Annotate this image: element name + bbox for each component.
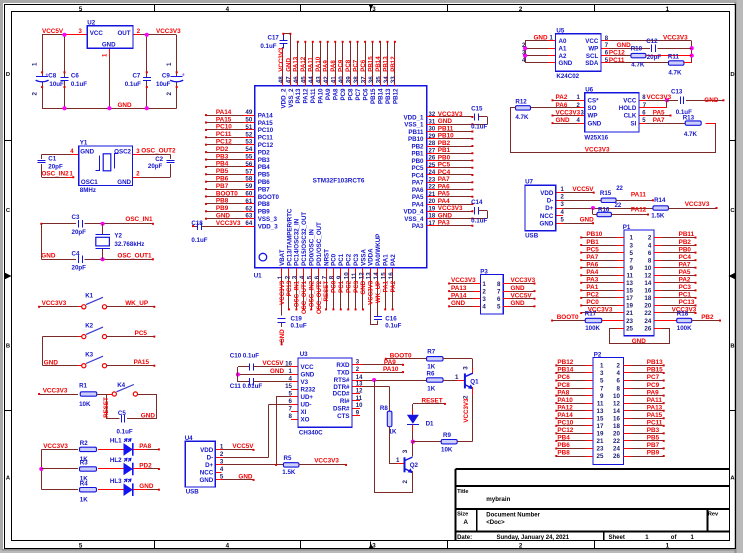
svg-text:VCC3V3: VCC3V3	[43, 443, 68, 450]
svg-text:Q1: Q1	[470, 379, 479, 386]
svg-text:Q2: Q2	[410, 462, 419, 469]
svg-text:22: 22	[429, 185, 436, 191]
svg-text:VCC5V: VCC5V	[42, 28, 64, 35]
svg-text:VCC3V3: VCC3V3	[314, 457, 339, 464]
svg-text:GND: GND	[44, 360, 59, 367]
svg-text:PA9: PA9	[384, 359, 396, 366]
svg-text:PA6: PA6	[586, 261, 598, 268]
svg-text:PB14: PB14	[375, 56, 382, 72]
svg-text:PA14: PA14	[258, 112, 274, 119]
svg-text:4.7K: 4.7K	[515, 114, 529, 121]
svg-text:0.1uF: 0.1uF	[125, 81, 141, 88]
svg-text:1: 1	[32, 62, 39, 66]
svg-text:2: 2	[32, 92, 39, 96]
svg-text:9: 9	[336, 275, 343, 279]
svg-text:PB10: PB10	[586, 231, 602, 238]
svg-text:PA7: PA7	[679, 261, 691, 268]
svg-text:20: 20	[613, 431, 620, 438]
svg-text:1K: 1K	[80, 496, 88, 503]
svg-text:PD2: PD2	[139, 462, 152, 469]
svg-text:Title: Title	[457, 489, 468, 495]
svg-text:K4: K4	[117, 382, 125, 389]
svg-text:21: 21	[597, 438, 604, 445]
svg-text:A1: A1	[559, 45, 567, 52]
svg-text:PB15: PB15	[367, 56, 374, 72]
svg-text:5: 5	[79, 543, 83, 550]
svg-text:C17: C17	[268, 34, 280, 41]
svg-text:3: 3	[462, 366, 469, 370]
svg-text:GND: GND	[360, 280, 367, 294]
svg-text:17: 17	[429, 221, 436, 227]
svg-text:PA15: PA15	[216, 116, 232, 123]
svg-text:PC13: PC13	[679, 299, 695, 306]
svg-text:9: 9	[600, 393, 604, 400]
svg-text:TXD: TXD	[337, 369, 350, 376]
svg-text:PB5: PB5	[647, 435, 660, 442]
svg-text:Y1: Y1	[80, 140, 88, 147]
svg-text:5: 5	[289, 391, 293, 398]
svg-text:0.1uF: 0.1uF	[117, 429, 133, 436]
svg-text:GND: GND	[270, 368, 285, 375]
svg-text:PB4: PB4	[258, 164, 271, 171]
svg-text:6: 6	[648, 250, 652, 257]
svg-text:PA9: PA9	[323, 60, 330, 72]
svg-text:20pF: 20pF	[48, 164, 63, 171]
svg-text:VCC3V3: VCC3V3	[451, 277, 476, 284]
svg-text:VCC3V3: VCC3V3	[685, 201, 710, 208]
svg-text:45: 45	[301, 76, 308, 83]
svg-text:3: 3	[220, 458, 224, 465]
svg-text:41: 41	[330, 76, 337, 83]
svg-text:27: 27	[429, 148, 436, 154]
svg-text:VBAT: VBAT	[279, 249, 286, 266]
svg-text:VDD_2: VDD_2	[280, 88, 287, 109]
svg-text:OSC_OUT2: OSC_OUT2	[141, 148, 176, 155]
svg-text:PA8: PA8	[333, 88, 340, 100]
svg-text:PA5: PA5	[653, 109, 665, 116]
svg-text:V3: V3	[301, 379, 309, 386]
svg-text:HL2: HL2	[110, 457, 122, 464]
svg-text:OSC_OUT1: OSC_OUT1	[117, 252, 152, 259]
svg-text:11: 11	[597, 400, 604, 407]
svg-text:R16: R16	[598, 206, 610, 213]
svg-text:22: 22	[615, 203, 622, 209]
svg-text:HL1: HL1	[110, 438, 122, 445]
svg-text:6: 6	[497, 296, 501, 303]
svg-text:10: 10	[613, 393, 620, 400]
svg-text:PB10: PB10	[408, 136, 424, 143]
svg-text:R12: R12	[515, 98, 527, 105]
svg-text:VCC3V3: VCC3V3	[438, 205, 463, 212]
svg-text:10K: 10K	[79, 401, 91, 408]
svg-text:VDD_1: VDD_1	[404, 114, 425, 121]
svg-text:PB7: PB7	[258, 186, 271, 193]
svg-text:PD0/OSC_IN: PD0/OSC_IN	[309, 229, 316, 266]
svg-text:W25X16: W25X16	[584, 135, 608, 142]
svg-text:13: 13	[356, 381, 363, 387]
svg-text:3: 3	[372, 6, 376, 13]
svg-text:R15: R15	[600, 190, 612, 197]
svg-text:10K: 10K	[441, 446, 453, 453]
svg-text:PA6: PA6	[556, 102, 568, 109]
svg-text:PA11: PA11	[631, 192, 647, 199]
svg-text:14: 14	[644, 280, 651, 287]
svg-text:PA2: PA2	[679, 277, 691, 284]
svg-text:RESET: RESET	[323, 281, 330, 302]
svg-text:WP: WP	[588, 113, 598, 120]
svg-text:PA15: PA15	[134, 359, 150, 366]
svg-text:PB12: PB12	[390, 56, 397, 72]
svg-text:15: 15	[626, 288, 633, 295]
svg-text:25: 25	[597, 453, 604, 460]
svg-text:32.768kHz: 32.768kHz	[114, 241, 144, 248]
svg-text:PB2: PB2	[411, 143, 424, 150]
svg-text:1: 1	[482, 281, 486, 288]
svg-text:26: 26	[429, 156, 436, 162]
svg-text:<Doc>: <Doc>	[486, 520, 505, 526]
svg-text:4.7K: 4.7K	[684, 131, 698, 138]
svg-text:GND: GND	[80, 148, 94, 155]
svg-text:VSS_3: VSS_3	[258, 216, 278, 223]
svg-text:12: 12	[356, 388, 363, 394]
svg-text:36: 36	[368, 76, 375, 83]
svg-text:1: 1	[455, 374, 459, 381]
svg-text:GND: GND	[540, 220, 554, 227]
svg-text:18: 18	[429, 214, 436, 220]
svg-text:PC13: PC13	[286, 280, 293, 296]
svg-text:3: 3	[372, 543, 376, 550]
svg-text:GND: GND	[102, 41, 116, 48]
svg-text:C10 0.1uF: C10 0.1uF	[230, 352, 259, 359]
svg-text:7: 7	[321, 275, 328, 279]
svg-text:54: 54	[245, 146, 252, 153]
svg-text:4: 4	[616, 370, 620, 377]
svg-text:23: 23	[626, 318, 633, 325]
svg-text:43: 43	[316, 76, 323, 83]
svg-text:PA15: PA15	[647, 412, 663, 419]
svg-text:OSC_OUT2: OSC_OUT2	[316, 280, 323, 314]
svg-text:RESET: RESET	[103, 397, 110, 418]
svg-text:GND: GND	[556, 117, 571, 124]
svg-text:PC6: PC6	[557, 374, 570, 381]
svg-text:PB9: PB9	[216, 205, 229, 212]
svg-text:PB11: PB11	[679, 231, 695, 238]
svg-text:Size: Size	[457, 512, 468, 518]
svg-text:VCC3V3: VCC3V3	[279, 280, 286, 305]
svg-text:1: 1	[666, 6, 670, 13]
svg-text:PA5: PA5	[412, 194, 424, 201]
svg-text:PC5: PC5	[135, 330, 148, 337]
svg-text:5: 5	[497, 304, 501, 311]
svg-text:NRST: NRST	[323, 249, 330, 266]
svg-text:29: 29	[429, 134, 436, 140]
svg-text:PB3: PB3	[647, 427, 660, 434]
svg-text:Date:: Date:	[457, 535, 472, 541]
svg-text:5: 5	[79, 6, 83, 13]
svg-text:44: 44	[308, 76, 315, 83]
svg-text:PD2: PD2	[216, 146, 229, 153]
svg-text:A2: A2	[559, 53, 567, 60]
svg-text:PA5: PA5	[438, 191, 450, 198]
svg-text:U1: U1	[254, 273, 262, 280]
svg-text:PA11: PA11	[310, 88, 317, 103]
svg-text:R13: R13	[683, 114, 695, 121]
svg-text:37: 37	[360, 76, 367, 83]
svg-text:VCC3V3: VCC3V3	[463, 398, 470, 423]
svg-text:Y2: Y2	[114, 232, 122, 239]
svg-text:RESET: RESET	[422, 398, 443, 405]
svg-text:A0: A0	[559, 38, 567, 45]
svg-text:59: 59	[245, 183, 252, 190]
svg-text:PB7: PB7	[647, 442, 660, 449]
svg-text:PC12: PC12	[557, 427, 573, 434]
svg-text:C9: C9	[162, 73, 170, 80]
svg-text:8: 8	[497, 281, 501, 288]
svg-text:1: 1	[289, 368, 293, 375]
svg-text:R11: R11	[668, 54, 680, 61]
svg-text:PA12: PA12	[303, 88, 310, 104]
svg-text:15: 15	[381, 272, 388, 279]
svg-text:PA8: PA8	[330, 60, 337, 72]
svg-text:1: 1	[630, 235, 634, 242]
svg-text:21: 21	[626, 310, 633, 317]
svg-text:8: 8	[616, 385, 620, 392]
svg-text:PC10: PC10	[216, 124, 232, 131]
svg-text:26: 26	[644, 325, 651, 332]
svg-text:OSC_IN1: OSC_IN1	[125, 216, 153, 223]
svg-text:PB7: PB7	[216, 183, 229, 190]
svg-text:VDD_4: VDD_4	[404, 209, 425, 216]
svg-text:20pF: 20pF	[72, 265, 87, 272]
svg-text:PB10: PB10	[438, 133, 454, 140]
svg-text:mybrain: mybrain	[486, 496, 510, 503]
svg-text:34: 34	[383, 76, 390, 83]
svg-text:CS*: CS*	[588, 98, 600, 105]
svg-text:3: 3	[482, 296, 486, 303]
svg-text:22: 22	[613, 438, 620, 445]
svg-text:GND: GND	[704, 97, 719, 104]
svg-text:CTS: CTS	[337, 413, 349, 420]
svg-text:PD1/OSC_OUT: PD1/OSC_OUT	[316, 222, 323, 266]
svg-text:PC1: PC1	[338, 280, 345, 293]
svg-text:PA10: PA10	[315, 56, 322, 72]
svg-text:PA4: PA4	[586, 269, 598, 276]
svg-text:BOOT0: BOOT0	[258, 194, 280, 201]
svg-text:14: 14	[373, 272, 380, 279]
svg-text:20: 20	[644, 303, 651, 310]
svg-text:PC4: PC4	[679, 254, 692, 261]
svg-text:13: 13	[597, 408, 604, 415]
svg-text:U3: U3	[300, 351, 308, 358]
svg-text:PC7: PC7	[355, 88, 362, 101]
svg-text:K3: K3	[85, 352, 93, 359]
svg-text:GND: GND	[511, 300, 526, 307]
svg-text:PA7: PA7	[438, 176, 450, 183]
svg-text:7: 7	[600, 385, 604, 392]
svg-text:DCD#: DCD#	[333, 391, 350, 398]
svg-text:PA8: PA8	[557, 389, 569, 396]
svg-text:Rev: Rev	[708, 512, 719, 518]
svg-text:7: 7	[497, 289, 501, 296]
svg-text:11: 11	[351, 272, 358, 279]
svg-text:19: 19	[429, 206, 436, 212]
svg-text:PC8: PC8	[348, 88, 355, 101]
svg-text:PA11: PA11	[647, 397, 663, 404]
svg-text:VCC3V3: VCC3V3	[216, 220, 241, 227]
svg-text:R4: R4	[80, 480, 88, 487]
svg-text:R3: R3	[80, 460, 88, 467]
svg-text:PD2: PD2	[258, 149, 271, 156]
svg-text:PA3: PA3	[586, 277, 598, 284]
svg-text:PA13: PA13	[647, 404, 663, 411]
svg-text:OSC2: OSC2	[114, 148, 131, 155]
svg-text:R8: R8	[380, 405, 388, 412]
svg-text:PB0: PB0	[679, 246, 692, 253]
svg-text:39: 39	[345, 76, 352, 83]
svg-text:VDD: VDD	[540, 190, 554, 197]
svg-text:22: 22	[644, 310, 651, 317]
svg-text:16: 16	[644, 288, 651, 295]
svg-text:63: 63	[245, 213, 252, 220]
svg-text:18: 18	[644, 295, 651, 302]
svg-text:CLK: CLK	[624, 113, 637, 120]
svg-text:PB9: PB9	[258, 209, 271, 216]
svg-text:PC11: PC11	[258, 135, 274, 142]
svg-text:25: 25	[429, 163, 436, 169]
svg-text:PB1: PB1	[411, 151, 424, 158]
svg-text:100K: 100K	[585, 325, 600, 332]
svg-text:VCC3V3: VCC3V3	[43, 387, 68, 394]
svg-text:GND: GND	[451, 300, 466, 307]
svg-text:GND: GND	[279, 329, 286, 343]
svg-text:GND: GND	[118, 102, 133, 109]
svg-text:R6: R6	[427, 370, 435, 377]
svg-text:PC1: PC1	[338, 253, 345, 266]
svg-text:of: of	[671, 535, 678, 541]
svg-text:GND: GND	[41, 252, 56, 259]
svg-text:PC5: PC5	[438, 162, 451, 169]
svg-text:7: 7	[289, 405, 293, 412]
svg-text:PB8: PB8	[557, 450, 570, 457]
svg-text:A: A	[463, 519, 468, 526]
svg-text:16: 16	[285, 361, 292, 368]
svg-text:23: 23	[597, 446, 604, 453]
svg-text:PA1: PA1	[383, 254, 390, 266]
svg-text:1K: 1K	[427, 386, 435, 393]
svg-text:7: 7	[630, 257, 634, 264]
svg-text:1.5K: 1.5K	[282, 469, 296, 476]
svg-text:VSS_4: VSS_4	[404, 216, 424, 223]
svg-text:28: 28	[429, 141, 436, 147]
svg-text:56: 56	[245, 161, 252, 168]
svg-text:49: 49	[245, 109, 252, 116]
svg-text:3: 3	[522, 50, 526, 57]
svg-text:U2: U2	[87, 20, 95, 27]
svg-text:15: 15	[285, 383, 292, 390]
svg-text:PA1: PA1	[586, 284, 598, 291]
svg-text:OSC_IN2: OSC_IN2	[42, 170, 70, 177]
svg-text:C2: C2	[155, 156, 163, 163]
svg-text:R18: R18	[677, 310, 689, 317]
svg-text:VCC3V3: VCC3V3	[556, 109, 581, 116]
svg-text:RXD: RXD	[336, 362, 350, 369]
svg-text:GND: GND	[216, 213, 231, 220]
svg-text:1.5K: 1.5K	[651, 213, 665, 220]
svg-text:R10: R10	[631, 46, 643, 53]
svg-text:PA12: PA12	[631, 206, 647, 213]
svg-text:PC3: PC3	[353, 280, 360, 293]
svg-text:C12: C12	[646, 38, 658, 45]
svg-text:SO: SO	[588, 105, 597, 112]
svg-text:U7: U7	[525, 179, 533, 186]
svg-text:0.1uF: 0.1uF	[71, 81, 87, 88]
svg-text:31: 31	[429, 119, 436, 125]
svg-text:GND: GND	[511, 285, 526, 292]
svg-text:R5: R5	[284, 455, 292, 462]
svg-text:12: 12	[613, 400, 620, 407]
svg-text:GND: GND	[438, 212, 453, 219]
svg-text:OSC_OUT1: OSC_OUT1	[301, 280, 308, 314]
svg-text:PA11: PA11	[308, 57, 315, 72]
svg-text:2: 2	[519, 543, 523, 550]
svg-text:8MHz: 8MHz	[80, 187, 96, 194]
svg-text:PA9: PA9	[325, 88, 332, 100]
svg-text:26: 26	[613, 453, 620, 460]
svg-text:OUT: OUT	[117, 30, 130, 37]
svg-text:VCC: VCC	[90, 30, 104, 37]
svg-text:VCC: VCC	[585, 38, 599, 45]
svg-text:PC15/OSC32_OUT: PC15/OSC32_OUT	[301, 212, 308, 266]
svg-text:61: 61	[245, 198, 252, 205]
svg-text:PC0: PC0	[331, 253, 338, 266]
svg-text:20pF: 20pF	[148, 163, 163, 170]
svg-text:PB1: PB1	[586, 239, 599, 246]
svg-text:42: 42	[323, 76, 330, 83]
svg-text:PB2: PB2	[701, 314, 714, 321]
svg-text:OSC_IN1: OSC_IN1	[294, 280, 301, 307]
svg-text:40: 40	[338, 76, 345, 83]
svg-text:Sheet: Sheet	[609, 535, 625, 541]
svg-text:D-: D-	[207, 455, 214, 462]
svg-text:XO: XO	[301, 416, 310, 423]
svg-text:PA13: PA13	[451, 285, 467, 292]
svg-text:PA3: PA3	[412, 223, 424, 230]
svg-text:10uF: 10uF	[156, 81, 171, 88]
svg-text:PC0: PC0	[331, 280, 338, 293]
svg-text:PC0: PC0	[586, 299, 599, 306]
svg-text:PB6: PB6	[216, 176, 229, 183]
svg-text:3: 3	[600, 370, 604, 377]
svg-text:PC8: PC8	[345, 59, 352, 72]
svg-text:PC4: PC4	[411, 172, 424, 179]
svg-text:PB1: PB1	[438, 147, 451, 154]
svg-text:VSS_2: VSS_2	[288, 88, 295, 108]
svg-text:20: 20	[429, 199, 436, 205]
svg-text:3: 3	[402, 449, 409, 453]
svg-text:SI: SI	[630, 120, 636, 127]
svg-text:C13: C13	[671, 88, 683, 95]
svg-text:USB: USB	[186, 489, 200, 496]
svg-text:15: 15	[597, 415, 604, 422]
svg-text:R2: R2	[80, 440, 88, 447]
svg-text:PC5: PC5	[411, 165, 424, 172]
svg-text:PC7: PC7	[353, 59, 360, 72]
svg-text:PA0/WKUP: PA0/WKUP	[375, 234, 382, 266]
svg-text:GND: GND	[632, 338, 647, 345]
svg-text:U5: U5	[556, 27, 564, 34]
svg-text:Sunday, January 24, 2021: Sunday, January 24, 2021	[497, 535, 570, 541]
svg-text:PA1: PA1	[382, 280, 389, 292]
